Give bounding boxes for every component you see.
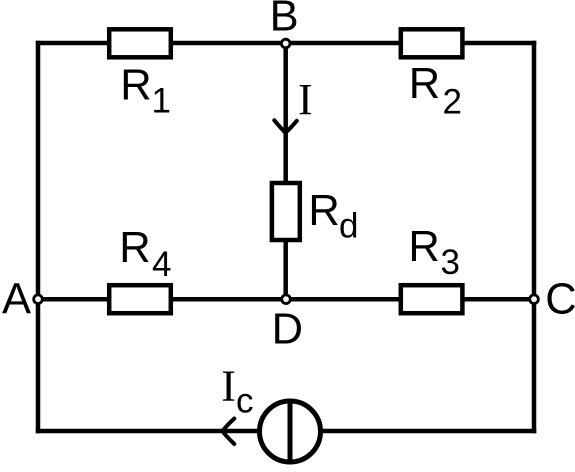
label current Ic	[221, 362, 253, 421]
wire: right side (top-right corner through node C to bottom-right corner)	[532, 43, 537, 431]
svg-text:c: c	[236, 381, 254, 420]
arrow: current Ic (leftward on bottom wire)	[222, 419, 234, 445]
svg-text:1: 1	[152, 82, 171, 121]
resistor R4	[109, 285, 171, 313]
label R1	[120, 61, 171, 120]
wire: top side (top-left corner through B to top-right corner)	[38, 41, 534, 46]
svg-text:3: 3	[441, 243, 460, 282]
svg-text:D: D	[272, 306, 303, 354]
label Rd	[308, 187, 358, 246]
svg-text:R: R	[119, 224, 150, 272]
wire: middle horizontal A-D-C	[38, 297, 534, 302]
svg-text:R: R	[409, 60, 440, 108]
arrow: current I (downward on bridge wire)	[274, 120, 297, 133]
resistor R3	[401, 285, 463, 313]
resistor Rd	[272, 183, 300, 240]
resistor R2	[401, 29, 463, 57]
wire: bottom side (bottom-left corner through current source to bottom-right corner)	[38, 429, 534, 434]
svg-text:B: B	[270, 0, 299, 41]
svg-text:2: 2	[443, 83, 462, 122]
node A	[34, 295, 43, 304]
label R3	[408, 223, 460, 282]
svg-text:d: d	[339, 206, 358, 245]
svg-text:4: 4	[152, 245, 171, 284]
label R4	[119, 224, 171, 284]
wire: left side (top-left corner through node A to bottom-left corner)	[36, 43, 41, 431]
node D	[282, 295, 291, 304]
label R2	[409, 60, 462, 122]
node C	[530, 295, 539, 304]
node B	[281, 39, 290, 48]
wire: bridge vertical B-D	[283, 43, 288, 299]
svg-text:R: R	[120, 61, 151, 109]
resistor R1	[109, 29, 171, 57]
svg-text:I: I	[298, 75, 313, 124]
svg-text:I: I	[221, 362, 236, 411]
svg-text:R: R	[408, 223, 439, 271]
svg-text:R: R	[308, 187, 339, 235]
svg-text:C: C	[545, 276, 575, 324]
current source Ic (circle with vertical bar)	[260, 401, 321, 462]
svg-text:A: A	[2, 275, 31, 323]
